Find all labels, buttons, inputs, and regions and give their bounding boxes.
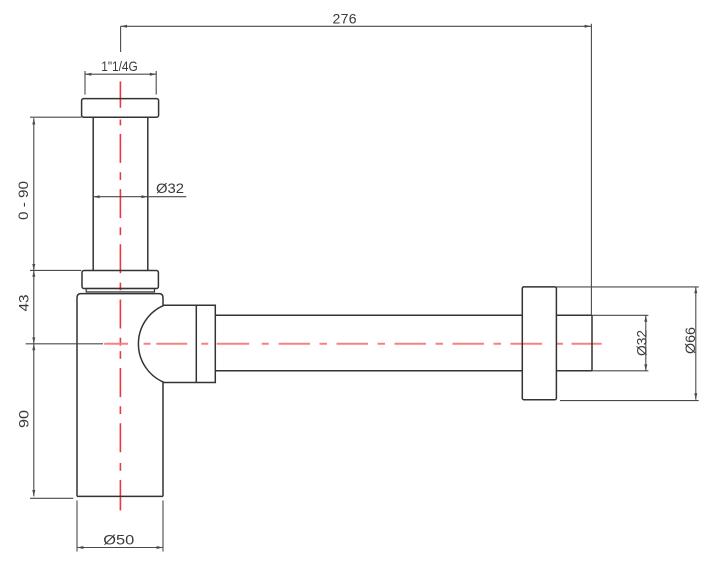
arrow Ø32 left: [93, 195, 99, 198]
horizontal pipe: [215, 315, 522, 371]
dimension Ø50: [77, 500, 163, 551]
dimension 1"1/4G: [85, 71, 156, 95]
svg-text:Ø66: Ø66: [682, 327, 698, 354]
arrow 43 bottom: [32, 337, 35, 343]
svg-text:0 - 90: 0 - 90: [15, 181, 31, 220]
dimension chain left (0-90 / 43 / 90): [26, 117, 103, 498]
arrow 0-90 top: [32, 118, 35, 124]
svg-text:43: 43: [16, 294, 32, 311]
centerline horizontal (red): [104, 343, 601, 345]
arrow 1"1/4G right: [150, 73, 156, 76]
arrow 1"1/4G left: [85, 73, 91, 76]
arrow Ø32 stub top: [644, 315, 647, 321]
arrow 90 top: [32, 344, 35, 350]
arrow Ø50 left: [77, 546, 83, 549]
dimension 276: [121, 24, 592, 316]
dimension Ø32 inlet pipe: [93, 196, 186, 198]
arrow 276 left: [121, 25, 127, 28]
arrow Ø32 right: [141, 195, 147, 198]
arrow Ø66 top: [694, 287, 697, 293]
svg-text:Ø32: Ø32: [634, 330, 650, 356]
arrow 90 bottom: [32, 490, 35, 496]
svg-text:Ø50: Ø50: [103, 532, 134, 548]
svg-text:Ø32: Ø32: [156, 180, 184, 196]
svg-text:1"1/4G: 1"1/4G: [101, 58, 138, 74]
arrow 0-90 bottom: [32, 264, 35, 270]
dimension Ø66: [556, 287, 698, 401]
arrow Ø50 right: [157, 546, 163, 549]
centerline vertical (red): [119, 81, 121, 510]
inlet pipe (vertical tube): [93, 117, 148, 270]
trap body: [77, 294, 163, 497]
arrow Ø66 bottom: [694, 393, 697, 399]
wall flange: [522, 287, 556, 400]
dimension Ø32 wall stub: [592, 315, 648, 371]
arrow 276 right: [585, 25, 591, 28]
lock nut (bottom of tube): [82, 271, 158, 289]
svg-text:276: 276: [333, 11, 357, 27]
elbow dome and nut ring: [138, 305, 215, 382]
cap nut (top): [82, 99, 159, 118]
arrow 43 top: [32, 270, 35, 276]
svg-text:90: 90: [16, 410, 32, 428]
arrow Ø32 stub bottom: [644, 364, 647, 370]
washer: [86, 289, 154, 292]
wall pipe stub: [556, 315, 592, 371]
